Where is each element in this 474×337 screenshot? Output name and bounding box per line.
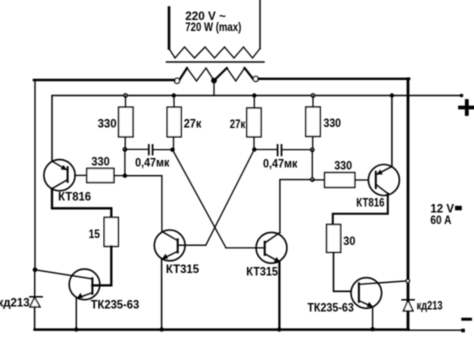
wire VT5 emitter to ground xyxy=(161,259,163,329)
svg-text:720 W (max): 720 W (max) xyxy=(185,22,241,34)
node L3 xyxy=(123,174,127,178)
svg-text:30: 30 xyxy=(343,236,355,248)
node dot bus/KT816 right emitter xyxy=(390,93,394,97)
wire secondary left tap to left column xyxy=(34,79,174,82)
node dot VT4 collector / right column xyxy=(406,279,409,282)
node R1 xyxy=(311,148,314,151)
wire VT6 base to left coupling xyxy=(226,247,265,249)
svg-text:0,47мк: 0,47мк xyxy=(135,158,170,170)
wire node R1 down to node R3 xyxy=(311,150,313,180)
+ symbol xyxy=(460,101,474,114)
wire VT2 collector to R8 xyxy=(333,194,388,225)
wire node R3 to resistor R7 xyxy=(312,179,324,181)
wire VT6 emitter to ground xyxy=(278,262,280,330)
wire VT5 base to right coupling xyxy=(178,244,206,246)
node dot left column / VT3 collector xyxy=(33,268,38,273)
coupling wire node L2 to VT6 base (left diagonal) xyxy=(173,150,227,248)
transistor VT1 KT816 left xyxy=(44,160,75,191)
node dot bus/VT6 emitter xyxy=(277,327,281,331)
wire VT6 collector up xyxy=(280,180,312,233)
svg-text:КТ816: КТ816 xyxy=(356,197,384,209)
svg-text:330: 330 xyxy=(324,118,342,130)
node dot bus/330 right xyxy=(311,94,314,97)
wire VT1 collector to R6 xyxy=(52,189,111,218)
wire center tap to +12V bus xyxy=(213,81,215,96)
transformer T1 primary lead right xyxy=(259,0,261,49)
transformer T1 secondary terminal left xyxy=(174,78,179,83)
svg-text:330: 330 xyxy=(91,156,109,168)
wire cap C1 to node L2 xyxy=(153,149,173,151)
transformer T1 primary lead left xyxy=(168,8,171,49)
node L1 xyxy=(123,148,126,151)
resistor R7 330 horizontal right xyxy=(325,173,355,188)
svg-text:кд213: кд213 xyxy=(0,298,30,310)
diode VD2 kd213 right xyxy=(402,299,414,301)
wire secondary right tap to right column xyxy=(258,78,409,80)
coupling wire node R2 to VT5 base (right diagonal) xyxy=(206,150,255,246)
transistor VT3 TK235-63 left xyxy=(69,269,100,300)
diode VD1 kd213 left xyxy=(30,296,42,298)
transformer T1 secondary winding xyxy=(180,68,254,81)
- symbol xyxy=(463,318,471,321)
capacitor C2 0,47mk right xyxy=(277,145,279,156)
svg-text:кд213: кд213 xyxy=(417,301,443,313)
resistor R6 15 vertical xyxy=(104,217,118,246)
wire R5 to base of VT1 xyxy=(75,174,87,176)
wire node L1 down xyxy=(124,149,126,175)
- terminal dot xyxy=(461,329,465,333)
transistor VT2 KT816 right xyxy=(368,165,399,196)
wire node L3 to resistor R5 xyxy=(114,175,125,177)
transistor VT4 TK235-63 right xyxy=(351,278,382,309)
wire node R2 to cap C2 xyxy=(254,149,277,151)
resistor R5 330 horizontal left xyxy=(87,168,114,182)
node dot bus/27k left xyxy=(172,93,176,97)
node dot bus/VT5 emitter xyxy=(160,327,164,331)
wire VT4 emitter to ground xyxy=(372,307,374,329)
ground bus bottom xyxy=(35,328,409,331)
wire R8 to VT4 base xyxy=(334,252,352,291)
wire left column to diode xyxy=(34,270,36,297)
capacitor C1 0,47mk left xyxy=(148,145,150,155)
wire R6 to VT3 base xyxy=(92,246,111,285)
node R3 xyxy=(311,178,314,181)
wire node L1 to cap C1 xyxy=(125,148,148,150)
+ terminal dot xyxy=(460,94,464,98)
svg-text:0,47мк: 0,47мк xyxy=(263,158,298,170)
node dot bus/27k right xyxy=(252,93,256,97)
svg-text:12 V: 12 V xyxy=(430,203,454,215)
wire cap C2 to node R1 xyxy=(282,149,312,151)
svg-text:15: 15 xyxy=(89,229,101,241)
svg-text:27к: 27к xyxy=(230,119,246,131)
transistor VT5 KT315 left xyxy=(154,230,185,261)
resistor R8 30 vertical xyxy=(327,225,341,253)
wire VT3 emitter to ground bus xyxy=(75,298,77,329)
resistor R2 27k vertical left xyxy=(173,96,175,108)
node dot bus/330 left xyxy=(124,94,127,97)
transformer T1 core xyxy=(167,61,265,63)
svg-text:27к: 27к xyxy=(184,119,202,131)
transistor VT6 KT315 right xyxy=(256,232,287,263)
svg-text:330: 330 xyxy=(334,160,352,172)
wire R7 to base of VT2 xyxy=(355,179,369,181)
resistor R1 330 vertical left xyxy=(125,96,127,108)
node L2 (27k left bottom) xyxy=(170,148,174,152)
transformer T1 center tap xyxy=(212,78,217,83)
svg-text:ТК235-63: ТК235-63 xyxy=(307,303,353,315)
resistor R3 27k vertical right xyxy=(253,96,255,109)
+12V bus xyxy=(52,96,462,161)
svg-text:КТ816: КТ816 xyxy=(58,192,91,204)
node R2 (27k right bottom) xyxy=(252,147,256,151)
svg-text:КТ315: КТ315 xyxy=(166,264,200,276)
transformer T1 secondary terminal right xyxy=(253,76,258,81)
transformer T1 primary winding xyxy=(169,47,260,58)
svg-text:ТК235-63: ТК235-63 xyxy=(91,300,140,312)
node dot bus/VT4 emitter xyxy=(370,327,374,331)
resistor R4 330 vertical right xyxy=(312,96,314,108)
node dot bus/VT3 emitter xyxy=(74,327,78,331)
wire VT2 emitter to bus xyxy=(391,96,393,167)
wire node L3 to KT315 left collector xyxy=(125,176,162,232)
svg-text:330: 330 xyxy=(98,119,117,131)
svg-text:60 A: 60 A xyxy=(430,215,451,227)
svg-text:КТ315: КТ315 xyxy=(246,267,278,279)
